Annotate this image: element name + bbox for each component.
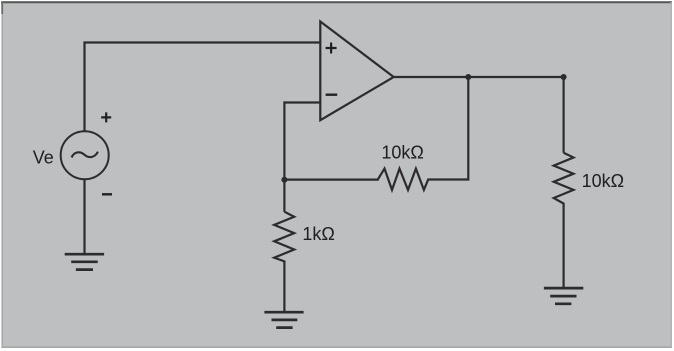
svg-text:10kΩ: 10kΩ <box>381 142 423 162</box>
svg-text:1kΩ: 1kΩ <box>302 224 334 244</box>
svg-text:Ve: Ve <box>33 147 54 167</box>
svg-text:10kΩ: 10kΩ <box>582 171 624 191</box>
